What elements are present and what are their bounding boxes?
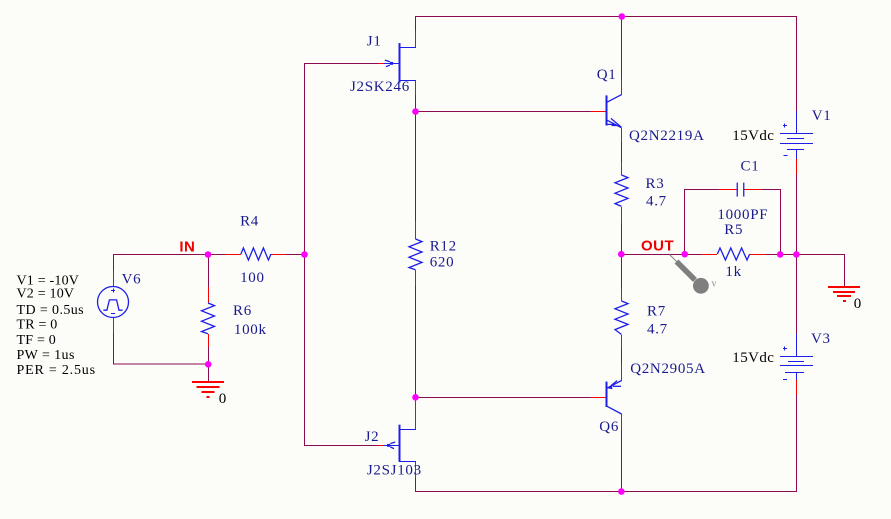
wire top rail down to Q1 collector: [621, 17, 623, 79]
wire top rail: [415, 16, 797, 18]
svg-text:R5: R5: [724, 222, 743, 238]
svg-text:100: 100: [240, 270, 265, 286]
wire J2 source to bottom rail: [415, 478, 417, 492]
wire V1 bottom to OUT rail: [796, 174, 798, 254]
svg-text:V2 = 10V: V2 = 10V: [17, 287, 75, 302]
jfet J1: [379, 31, 416, 95]
svg-text:IN: IN: [179, 238, 195, 255]
wire Q6 collector to bottom rail: [621, 430, 623, 491]
wire C1 left vertical: [684, 190, 686, 254]
junction top rail: [619, 13, 626, 20]
wire IN node down to R6: [208, 255, 210, 287]
svg-text:Q6: Q6: [599, 419, 619, 435]
svg-text:PER = 2.5us: PER = 2.5us: [17, 363, 96, 378]
wire node to Q1 base: [415, 111, 591, 113]
transistor Q1: [591, 79, 622, 142]
wire R4 right to vertical bus: [286, 254, 305, 256]
svg-text:1000PF: 1000PF: [717, 207, 768, 223]
resistor R5: [701, 248, 766, 260]
resistor R7: [615, 289, 628, 349]
resistor R3: [615, 162, 628, 223]
capacitor C1: [719, 183, 762, 197]
svg-text:TR = 0: TR = 0: [17, 318, 58, 333]
junction R6 ground node: [205, 361, 212, 368]
ground 0 right: [828, 287, 860, 301]
svg-text:C1: C1: [741, 159, 760, 175]
voltage probe marker: [670, 255, 709, 294]
wire R6 bottom to ground node: [208, 347, 210, 364]
svg-text:TD = 0.5us: TD = 0.5us: [17, 303, 85, 318]
svg-text:J2: J2: [365, 429, 380, 445]
junction battery rail OUT: [793, 251, 800, 258]
wire to J1 gate: [304, 63, 379, 65]
wire ground node to ground symbol: [208, 364, 210, 382]
wire junction to R5 left: [684, 254, 701, 256]
jfet J2: [379, 400, 417, 478]
wire OUT node down to R7: [621, 254, 623, 289]
wire OUT node to feedback junction: [621, 254, 685, 256]
wire OUT rail down to V3 top: [796, 254, 798, 334]
junction bottom rail: [618, 488, 625, 495]
wire OUT rail to right ground corner: [780, 254, 845, 256]
wire Q1 emitter to R3: [621, 142, 623, 162]
wire R3 to OUT node: [621, 223, 623, 254]
wire R7 to Q6 emitter: [621, 349, 623, 364]
wire V6 bottom to ground node: [114, 333, 209, 364]
svg-text:620: 620: [430, 255, 455, 271]
wire C1 top right: [762, 189, 781, 191]
svg-text:Q2N2219A: Q2N2219A: [629, 128, 705, 144]
transistor Q6: [591, 364, 622, 430]
battery V1: [780, 111, 813, 174]
svg-text:100k: 100k: [234, 322, 267, 338]
resistor R4: [225, 248, 286, 260]
junction OUT node: [618, 251, 625, 258]
svg-text:J2SK246: J2SK246: [350, 79, 410, 95]
wire V6 top stub: [113, 254, 115, 270]
resistor R6: [202, 287, 215, 347]
svg-text:V1: V1: [812, 108, 832, 124]
svg-text:15Vdc: 15Vdc: [732, 128, 774, 144]
svg-text:R6: R6: [233, 303, 252, 319]
svg-text:Q2N2905A: Q2N2905A: [630, 361, 706, 377]
svg-text:Q1: Q1: [597, 67, 617, 83]
svg-text:15Vdc: 15Vdc: [732, 350, 774, 366]
svg-text:R3: R3: [646, 176, 665, 192]
svg-text:J1: J1: [367, 33, 382, 49]
wire top rail down to V1: [796, 17, 798, 111]
wire R5 right to junction: [766, 254, 781, 256]
resistor R12: [409, 221, 422, 286]
svg-text:R12: R12: [430, 239, 457, 255]
junction IN node: [205, 251, 212, 258]
wire node to Q6 base: [415, 397, 591, 399]
wire down to right ground: [844, 255, 846, 287]
junction feedback right: [777, 251, 784, 258]
svg-text:PW = 1us: PW = 1us: [17, 348, 75, 363]
wire V6 top to R4: [113, 254, 225, 256]
wire J1 source down to R12: [415, 95, 417, 221]
svg-text:V3: V3: [811, 331, 831, 347]
svg-text:R7: R7: [647, 304, 666, 320]
svg-text:0: 0: [219, 391, 227, 407]
svg-text:4.7: 4.7: [647, 322, 668, 338]
svg-text:V6: V6: [122, 272, 142, 288]
svg-text:TF = 0: TF = 0: [17, 333, 56, 348]
wire bottom rail: [415, 491, 797, 493]
wire R12 bottom to J2 drain node: [415, 286, 417, 400]
svg-text:J2SJ103: J2SJ103: [367, 462, 422, 478]
wire input vertical bus J1 gate to J2 gate: [304, 63, 306, 446]
svg-text:R4: R4: [240, 214, 259, 230]
wire to J2 gate: [304, 445, 379, 447]
wire V3 bottom to bottom rail: [796, 395, 798, 492]
wire C1 top left: [684, 189, 719, 191]
pulse parameters text: [17, 274, 96, 378]
wire J1 drain to top rail: [415, 16, 417, 32]
wire C1 right vertical: [780, 190, 782, 254]
junction feedback left: [681, 251, 688, 258]
battery V3: [780, 334, 813, 395]
junction Q1 base node: [412, 108, 419, 115]
svg-text:0: 0: [854, 296, 862, 312]
svg-text:v: v: [712, 279, 717, 290]
svg-text:4.7: 4.7: [646, 194, 667, 210]
junction Q6 base node: [412, 394, 419, 401]
junction R4 right bus: [301, 251, 308, 258]
svg-text:1k: 1k: [725, 264, 741, 280]
svg-text:OUT: OUT: [641, 237, 674, 254]
ground 0 left: [192, 382, 224, 397]
pulse source V6: [98, 270, 129, 333]
